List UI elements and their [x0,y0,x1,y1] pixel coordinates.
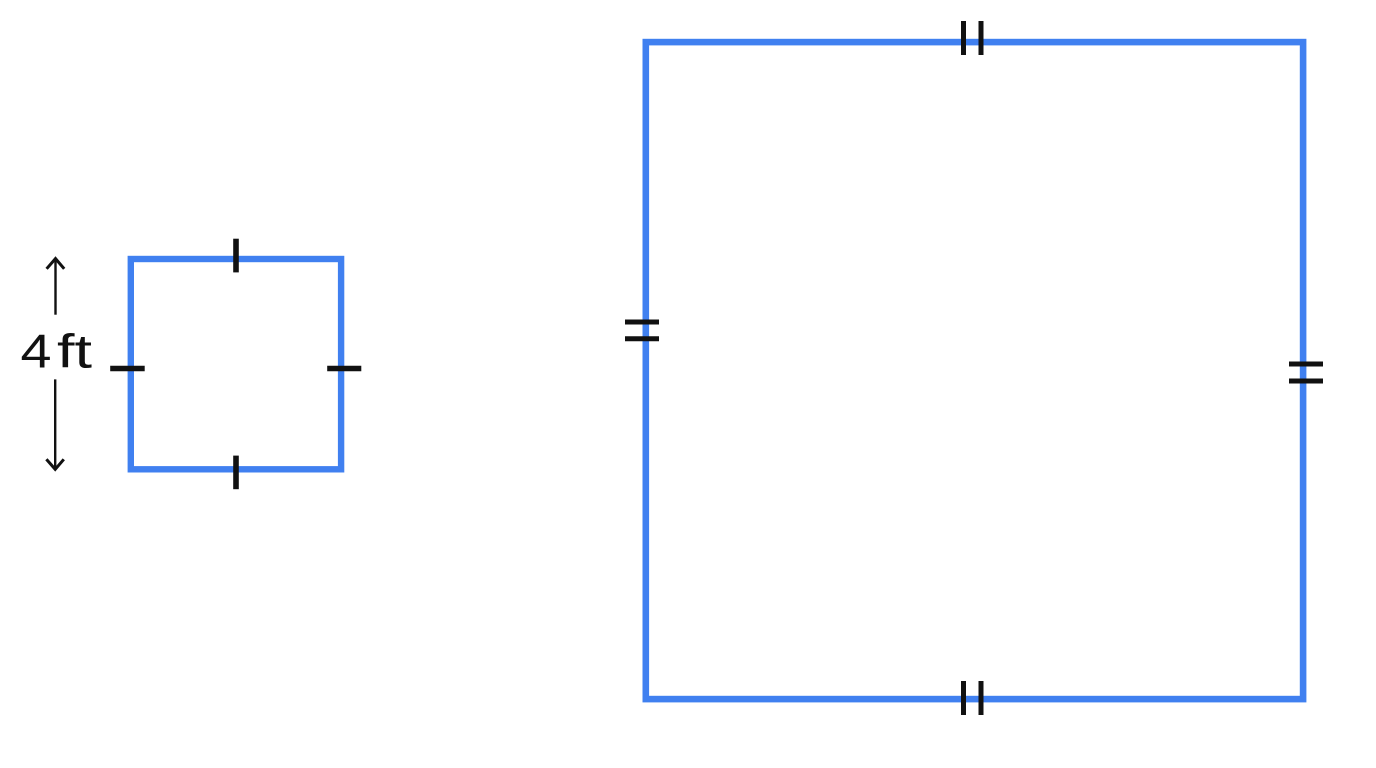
svg-text:ft: ft [57,325,92,378]
svg-text:4: 4 [21,325,52,378]
